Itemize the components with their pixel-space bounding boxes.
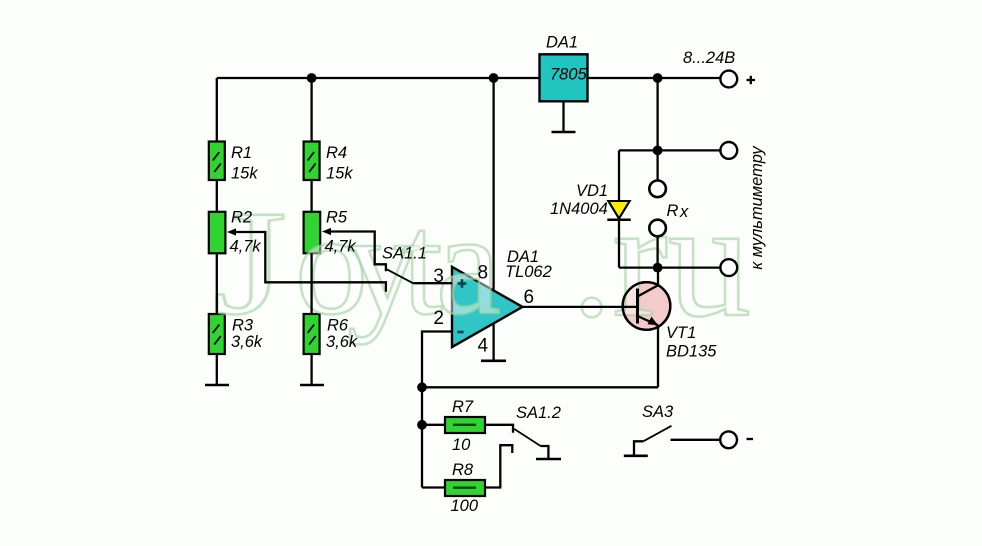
wire R8 left [422,486,445,488]
svg-text:VT1: VT1 [666,324,696,342]
plus sign at top terminal [747,76,756,84]
wire R8 right to SA1.2 contact [485,445,512,487]
terminal multimeter lower [720,259,737,276]
pin 4 [478,336,489,357]
label VT1 BD135 [666,324,717,361]
svg-text:SA1.1: SA1.1 [382,245,427,263]
svg-text:к мультиметру: к мультиметру [748,145,766,270]
label R5 [325,209,357,256]
svg-text:R8: R8 [452,461,474,479]
label 8...24V [683,49,735,67]
svg-text:R5: R5 [326,209,348,227]
op-amp U1 DA1 TL062 triangle [452,267,523,347]
wire collector VT1 [657,268,659,286]
switch SA3 blade [643,426,671,442]
wiper arrow of R2 [227,228,236,235]
value slashes inside R4 [308,152,316,172]
wire op-amp pin 4 [492,323,494,360]
resistor R8 [445,480,485,496]
op-amp plus input marker [458,279,467,288]
svg-text:15k: 15k [231,165,258,183]
svg-text:BD135: BD135 [666,343,717,361]
wire supply drop to Rx [656,78,658,180]
wire R5 wiper to switch pivot [329,232,386,272]
resistor R2 [209,212,226,254]
diode VD1 outline [608,201,629,219]
label SA1.2 [516,404,561,422]
node junction R7 left [417,420,427,430]
svg-text:R1: R1 [231,144,252,162]
transistor VT1 emitter arrow [648,317,659,326]
label VD1 1N4004 [550,182,608,218]
resistor R4 [304,142,320,181]
op-amp minus input marker [457,331,463,334]
label R1 [231,144,258,183]
regulator DA1 7805 body [540,54,588,101]
transistor VT1 emitter stroke [638,316,659,325]
transistor VT1 outline [623,282,671,330]
switch SA1.2 blade [514,429,541,446]
resistor R1 [209,142,225,181]
value slashes inside R1 [213,152,221,172]
label SA1.1 [382,245,427,263]
transistor VT1 base bar [636,289,639,324]
ground under 7805 [552,101,576,132]
wire top rail [217,77,721,79]
ground under R3 [205,384,229,387]
svg-text:R6: R6 [327,317,349,335]
svg-text:8: 8 [478,263,489,284]
wire VD1 bottom link [619,266,720,268]
diode VD1 cathode bar [607,219,630,222]
svg-text:DA1: DA1 [546,34,578,52]
svg-text:4: 4 [478,336,489,357]
ground under R6 [300,384,324,387]
pin 6 [524,287,535,308]
svg-text:1N4004: 1N4004 [550,200,608,218]
svg-text:100: 100 [451,497,479,515]
label R2 [230,209,262,256]
svg-text:6: 6 [524,287,535,308]
svg-text:x: x [679,203,689,221]
svg-text:8...24В: 8...24В [683,49,735,67]
value stripe inside R7 [453,424,476,426]
label R6 [326,317,358,352]
terminal - bottom [720,431,737,448]
switch SA1.2 right contact [541,446,549,458]
wiper arrow of R5 [322,228,331,235]
Rx socket lower [649,220,666,237]
label R8 and value [451,461,479,515]
wire R2 wiper to switch contact [234,232,386,292]
node junction Rx bottom [653,263,663,273]
svg-text:R7: R7 [452,398,474,416]
svg-text:R: R [667,202,679,220]
ground under SA3 [624,454,648,457]
resistor R7 [445,417,485,433]
label R3 [231,317,263,352]
wire R7 left [422,424,445,426]
node junction top rail right [653,73,663,83]
wire emitter VT1 [657,325,659,387]
wire bottom rail [422,386,658,388]
svg-text:3,6k: 3,6k [231,333,263,351]
svg-text:VD1: VD1 [576,182,608,200]
wire VD1 top link [619,149,720,151]
label R7 and value [452,398,474,454]
svg-text:4,7k: 4,7k [230,238,262,256]
watermark joyta.ru [213,167,751,351]
wire VD1 branch [618,150,620,267]
pin 2 [433,308,444,329]
label DA1 TL062 [505,248,552,281]
svg-text:4,7k: 4,7k [325,238,357,256]
label Rx [667,202,690,221]
svg-text:SA1.2: SA1.2 [516,404,561,422]
ground under SA1.2 [536,458,561,461]
wire Rx lower to bottom link [656,237,658,268]
wire op-amp pin 8 supply [492,78,494,291]
svg-text:3: 3 [433,266,444,287]
wire op-amp pin 2 loop [422,332,452,488]
wire left column R1-R2-R3 [216,78,218,385]
value stripe inside R8 [453,487,476,489]
svg-text:TL062: TL062 [505,263,552,281]
node junction top rail pin8 [489,73,499,83]
svg-text:R4: R4 [326,144,347,162]
svg-text:10: 10 [452,436,471,454]
label k multimetru [748,145,766,270]
transistor VT1 collector stroke [638,285,659,296]
value slashes inside R6 [308,325,316,345]
minus sign at bottom terminal [747,438,754,440]
wire SA3 to minus terminal [671,439,721,441]
svg-text:7805: 7805 [550,66,588,84]
svg-text:R2: R2 [231,209,252,227]
pin 8 [478,263,489,284]
Rx socket upper [649,181,666,198]
value slashes inside R3 [213,325,221,345]
svg-text:2: 2 [433,308,444,329]
resistor R6 [304,314,320,354]
diode VD1 body [608,201,629,219]
svg-text:a: a [436,183,501,345]
node junction top rail R4 [307,73,317,83]
node junction Rx top [653,146,663,156]
terminal + top [720,71,737,88]
svg-text:3,6k: 3,6k [326,333,358,351]
node junction bottom rail pin2 [417,382,427,392]
terminal multimeter upper [720,142,737,159]
label SA3 [642,403,674,421]
transistor Q1 VT1 body [623,282,671,330]
switch SA3 ground contact [634,441,643,455]
value 7805 [550,66,588,84]
switch SA1.1 blade [387,269,414,283]
label DA1 above 7805 [546,34,578,52]
label R4 [326,144,353,183]
pin 3 [433,266,444,287]
wire switch to op-amp pin 3 [414,282,453,284]
wire R4 column [310,78,312,385]
ground under pin 4 [481,359,506,362]
svg-text:SA3: SA3 [642,403,674,421]
svg-text:R3: R3 [232,317,254,335]
resistor R3 [209,314,225,354]
wire op-amp pin 6 output to base [523,306,638,308]
resistor R5 [304,212,321,254]
wire R7 right to SA1.2 [485,425,513,433]
svg-text:15k: 15k [326,165,353,183]
